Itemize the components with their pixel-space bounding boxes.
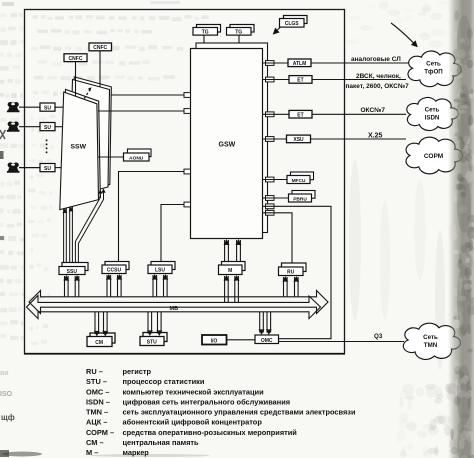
- dashed arrow inside SSW stack: [84, 87, 91, 98]
- block SU1: [40, 103, 55, 111]
- svg-text:TG: TG: [235, 30, 242, 36]
- svg-text:SU: SU: [44, 105, 51, 111]
- block LSU: [148, 262, 175, 274]
- cloud SORM: [406, 137, 463, 174]
- svg-text:регистр: регистр: [123, 367, 152, 376]
- svg-text:СОРМ: СОРМ: [424, 153, 443, 160]
- svg-text:SU: SU: [44, 166, 51, 172]
- port GSW right for XSU: [266, 137, 275, 142]
- svg-text:OMC: OMC: [261, 338, 273, 344]
- svg-text:аналоговые СЛ: аналоговые СЛ: [351, 56, 401, 63]
- svg-text:ISDN –: ISDN –: [86, 397, 110, 406]
- block M: [219, 262, 246, 275]
- block CLGS: [280, 16, 308, 28]
- bus connector LSU pair1: [152, 274, 158, 297]
- svg-text:CM: CM: [95, 340, 103, 346]
- wire GSW to ET2: [263, 113, 290, 115]
- block MFCU: [287, 172, 314, 184]
- port GSW right for RU link: [266, 210, 275, 215]
- arrow CLGS to GSW: [274, 28, 281, 34]
- svg-text:ви: ви: [0, 370, 9, 377]
- cloud PSTN network: [408, 51, 461, 87]
- block AONU: [124, 149, 152, 161]
- wire SSW front slab to GSW port y111: [98, 109, 191, 114]
- bus connector OMC pair2: [266, 312, 272, 335]
- svg-text:STU: STU: [147, 340, 157, 346]
- svg-text:ISO: ISO: [0, 391, 13, 398]
- svg-text:ATLM: ATLM: [293, 61, 307, 67]
- bus connector CCSU pair1: [106, 274, 112, 297]
- wire GSW to ATLM: [263, 62, 289, 64]
- wire SSW to SSU pair2: [69, 206, 74, 262]
- telephone T2: [7, 121, 20, 131]
- wire XSU to SORM cloud, X.25 label: [311, 133, 407, 140]
- wire SSW back slab to GSW port y95: [111, 93, 191, 98]
- block SU3: [40, 164, 55, 172]
- svg-text:ОКС№7: ОКС№7: [361, 107, 386, 114]
- wire T3 to SU3: [19, 167, 40, 169]
- bus MB double-headed arrow: [27, 291, 329, 319]
- wire SU1 to SSW: [55, 106, 64, 108]
- svg-text:Сеть: Сеть: [423, 334, 438, 341]
- block ATLM: [288, 59, 311, 67]
- svg-text:ET: ET: [297, 112, 303, 118]
- wire GSW to RU riser: [263, 213, 293, 263]
- wire OMC to TMN cloud Q3: [279, 333, 405, 341]
- svg-text:2ВСК, челнок,: 2ВСК, челнок,: [356, 73, 401, 80]
- wire GSW to OMC: [263, 206, 332, 338]
- svg-text:LSU: LSU: [155, 268, 165, 274]
- block TG1: [193, 25, 221, 36]
- block IO: [202, 335, 227, 345]
- svg-text:SSW: SSW: [71, 144, 87, 151]
- wire GSW to XSU: [263, 138, 287, 140]
- svg-text:RU: RU: [287, 269, 295, 275]
- arrow into PSTN cloud from top: [391, 23, 417, 47]
- bus connector GSW to M pair2: [236, 239, 242, 262]
- svg-text:щф: щф: [1, 413, 15, 422]
- block ET1: [289, 76, 312, 84]
- wire AONU to SSW: [98, 156, 124, 158]
- svg-text:АЦК –: АЦК –: [86, 418, 107, 427]
- ellipsis dots between SU2 and SU3: [46, 140, 48, 154]
- wire ET2 to ISDN cloud, OKS7 label: [312, 107, 406, 114]
- wire GSW port y204.5 to LSU riser: [161, 202, 191, 261]
- wire ATLM to PSTN cloud, analog trunks: [311, 56, 411, 63]
- wire GSW to MFCU: [263, 179, 288, 181]
- wire CNFC1 to SSW front slab: [75, 62, 77, 97]
- wire GSW port y171 to CCSU riser: [119, 169, 191, 261]
- svg-text:МВ: МВ: [170, 306, 179, 312]
- svg-text:СМ –: СМ –: [86, 438, 104, 447]
- wire GSW to ET1: [263, 79, 290, 81]
- block CNFC1: [64, 54, 87, 62]
- svg-text:XSU: XSU: [293, 137, 304, 143]
- svg-text:I/O: I/O: [211, 338, 218, 344]
- wire ET1 to PSTN cloud, 2VSK label: [312, 73, 409, 90]
- block CCSU: [102, 262, 129, 274]
- block ET2: [289, 110, 312, 118]
- svg-text:CCSU: CCSU: [107, 268, 122, 274]
- svg-text:AONU: AONU: [129, 155, 144, 161]
- bus connector LSU pair2: [162, 274, 168, 297]
- block CNFC2: [89, 43, 112, 51]
- svg-text:CNFC: CNFC: [69, 56, 83, 62]
- svg-text:RU –: RU –: [86, 367, 103, 376]
- bus connector RU pair2: [293, 276, 299, 297]
- port GSW right for ET1: [266, 77, 275, 82]
- svg-text:Сеть: Сеть: [425, 107, 440, 114]
- svg-text:CNFC: CNFC: [93, 45, 107, 51]
- svg-text:MFCU: MFCU: [292, 178, 306, 184]
- bus connector CM pair2: [102, 312, 108, 337]
- svg-text:TG: TG: [202, 30, 209, 36]
- block STU: [140, 333, 167, 346]
- svg-text:Сеть: Сеть: [426, 61, 441, 68]
- wire CNFC2 to SSW back slab: [99, 51, 101, 87]
- svg-text:Q3: Q3: [374, 333, 383, 340]
- block SSU: [59, 263, 88, 275]
- block TG2: [227, 25, 255, 36]
- svg-text:Х.25: Х.25: [368, 133, 383, 140]
- bus connector OMC pair1: [259, 312, 265, 335]
- block CM: [87, 333, 115, 347]
- svg-text:компьютер технической эксплуат: компьютер технической эксплуатации: [123, 387, 265, 396]
- block RU: [279, 263, 307, 276]
- port GSW right for MFCU: [266, 177, 275, 182]
- svg-text:маркер: маркер: [123, 448, 150, 457]
- wire SU3 to SSW: [55, 167, 62, 169]
- wire SU2 to SSW: [55, 126, 63, 128]
- svg-text:СОРМ –: СОРМ –: [86, 428, 114, 437]
- wire TG1 to GSW: [203, 35, 205, 43]
- telephone T1: [7, 102, 20, 112]
- bus connector STU pair1: [147, 312, 153, 336]
- wire GSW to PBRU: [263, 197, 289, 199]
- port GSW right for PBRU: [266, 196, 275, 201]
- switch plane SSW front slab: [60, 89, 101, 209]
- svg-text:SU: SU: [44, 125, 51, 131]
- outer frame: [24, 10, 345, 354]
- bus connector CM pair1: [94, 312, 100, 337]
- bus connector M pair2: [234, 275, 240, 302]
- svg-text:ET: ET: [297, 78, 303, 84]
- svg-text:GSW: GSW: [219, 142, 236, 149]
- svg-text:сеть эксплуатационного управле: сеть эксплуатационного управления средст…: [123, 408, 356, 417]
- port GSW right for OMC link: [266, 204, 275, 209]
- wire SSW back slab to SSU pair3: [75, 188, 105, 262]
- svg-text:PBRU: PBRU: [293, 196, 307, 202]
- bus connector CCSU pair2: [116, 274, 122, 297]
- cloud TMN network: [403, 323, 460, 359]
- svg-text:TMN: TMN: [424, 342, 438, 349]
- bus connector SSU pair2: [74, 275, 80, 297]
- bus connector RU pair1: [282, 276, 288, 297]
- svg-text:центральная память: центральная память: [123, 438, 200, 447]
- block SU2: [40, 123, 55, 131]
- svg-text:SSU: SSU: [67, 269, 78, 275]
- wire T2 to SU2: [19, 126, 40, 128]
- svg-text:процессор статистики: процессор статистики: [123, 377, 205, 386]
- block XSU: [287, 135, 311, 143]
- svg-text:M: M: [228, 268, 232, 274]
- svg-text:ТфОП: ТфОП: [424, 69, 443, 76]
- port GSW right for ATLM: [266, 61, 275, 66]
- block GSW: [191, 43, 268, 239]
- svg-text:TMN –: TMN –: [86, 408, 108, 417]
- port GSW right for ET2: [266, 112, 275, 117]
- svg-text:STU –: STU –: [86, 377, 107, 386]
- svg-text:ISDN: ISDN: [425, 115, 440, 122]
- svg-text:ОМС –: ОМС –: [86, 387, 109, 396]
- switch plane SSW back slab: [70, 77, 112, 197]
- bus connector STU pair2: [156, 312, 162, 336]
- svg-text:пакет, 2600, ОКС№7: пакет, 2600, ОКС№7: [346, 83, 410, 90]
- wire IO to OMC: [227, 339, 256, 341]
- bus connector M pair1: [224, 275, 230, 302]
- bus connector GSW to M pair1: [224, 239, 230, 262]
- svg-text:средства оперативно-розыскных: средства оперативно-розыскных мероприяти…: [123, 428, 298, 437]
- wire TG2 to GSW: [238, 35, 240, 43]
- svg-text:CLGS: CLGS: [285, 21, 300, 27]
- svg-text:М –: М –: [86, 448, 98, 457]
- telephone T3: [7, 162, 20, 172]
- legend: [86, 367, 356, 457]
- block PBRU: [289, 191, 316, 203]
- block OMC: [255, 335, 279, 344]
- wire SSW to SSU pair1: [63, 208, 68, 263]
- cloud ISDN network: [407, 97, 459, 130]
- svg-text:цифровая сеть интегрального об: цифровая сеть интегрального обслуживания: [123, 397, 291, 406]
- svg-text:абонентский цифровой концентра: абонентский цифровой концентратор: [123, 418, 263, 427]
- bus connector SSU pair1: [63, 275, 69, 297]
- wire T1 to SU1: [19, 106, 40, 108]
